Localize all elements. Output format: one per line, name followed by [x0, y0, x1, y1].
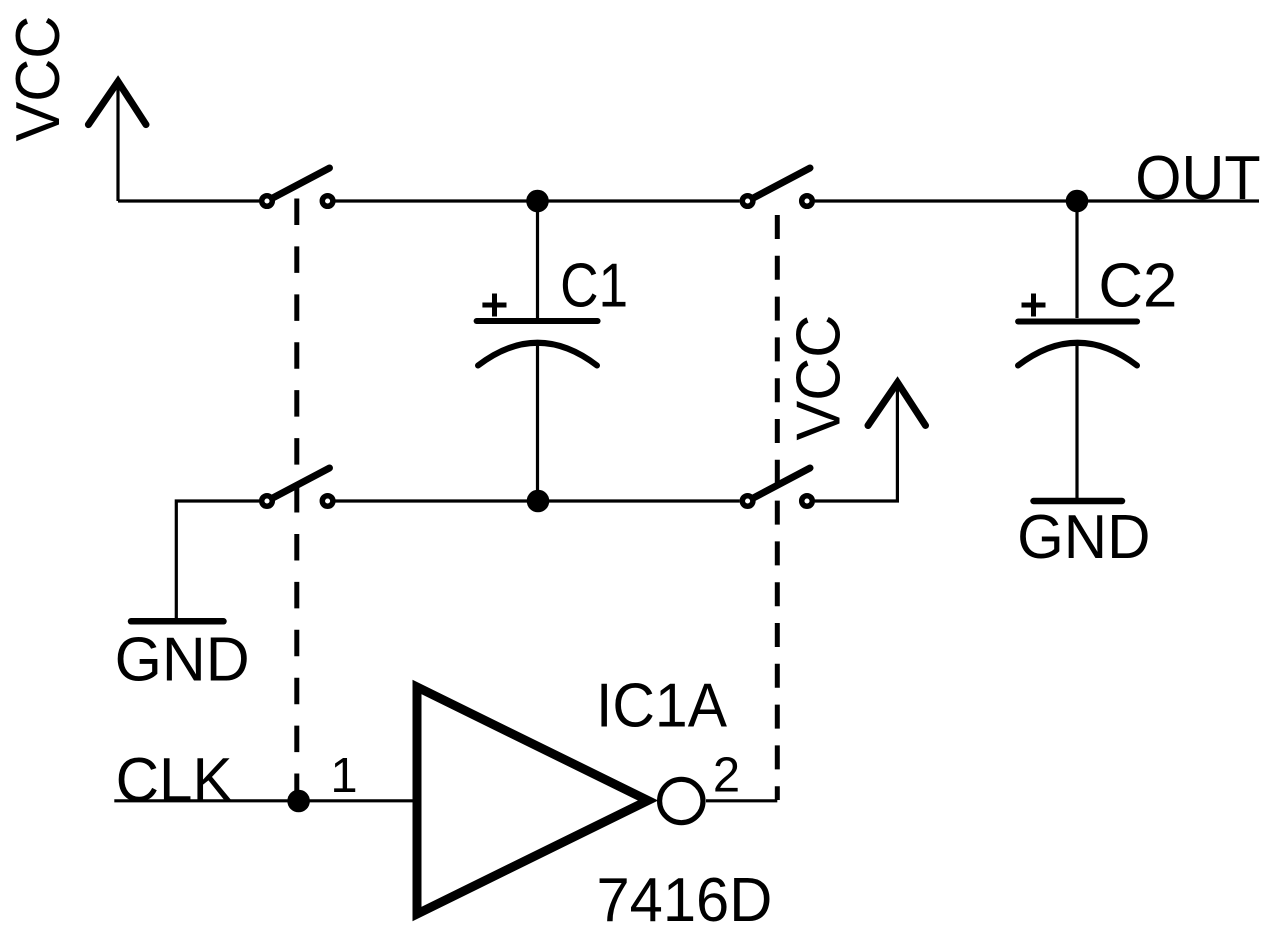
- svg-text:VCC: VCC: [785, 315, 854, 441]
- svg-text:VCC: VCC: [4, 16, 73, 142]
- control dashed line 1: [294, 199, 299, 801]
- wire CLK input: [114, 799, 298, 802]
- inverter IC1A (7416) triangle: [417, 687, 648, 914]
- wire C1 top lead: [536, 201, 539, 318]
- ground symbol GND (left): [131, 618, 224, 625]
- wire top rail segment 1: [118, 199, 259, 202]
- C1 curved plate: [478, 343, 597, 366]
- svg-text:C2: C2: [1098, 252, 1177, 321]
- supply symbol VCC arrow (top-left): [88, 78, 146, 201]
- junction node (CLK / control 1): [287, 790, 310, 813]
- capacitor C1: [477, 201, 628, 501]
- wire lower rail segment 2: [336, 499, 740, 502]
- capacitor C2: [1018, 201, 1177, 498]
- wire C2 bottom lead: [1075, 344, 1078, 498]
- wire top rail segment 2: [336, 199, 740, 202]
- wire top rail segment 3: [815, 199, 1259, 202]
- wire lower rail left + GND drop: [176, 501, 259, 618]
- C2 plus sign: [1022, 294, 1046, 317]
- C1 top plate: [477, 318, 598, 324]
- svg-text:OUT: OUT: [1135, 144, 1260, 213]
- inverter output bubble: [660, 779, 703, 822]
- junction node (bottom of C1): [527, 490, 550, 513]
- switch SW4 (bottom-right): [742, 468, 812, 506]
- ground symbol GND (under C2): [1034, 498, 1123, 505]
- switch SW2 (top-right): [742, 168, 812, 206]
- svg-text:7416D: 7416D: [597, 866, 773, 935]
- switch SW3 (bottom-left): [262, 468, 333, 506]
- supply symbol VCC arrow (middle): [868, 383, 926, 426]
- svg-text:GND: GND: [115, 626, 250, 695]
- svg-text:IC1A: IC1A: [596, 672, 728, 741]
- wire C2 top lead: [1075, 201, 1078, 318]
- wire pin 2: [706, 799, 777, 802]
- C2 top plate: [1018, 319, 1137, 325]
- svg-text:2: 2: [713, 749, 740, 803]
- control dashed line 2: [775, 215, 780, 800]
- svg-text:GND: GND: [1017, 503, 1150, 572]
- junction node (top of C1): [526, 190, 549, 213]
- C2 curved plate: [1018, 343, 1137, 366]
- wire C1 bottom lead: [536, 344, 539, 501]
- switch SW1 (top-left): [262, 168, 333, 206]
- C1 plus sign: [482, 294, 506, 317]
- wire pin 1: [299, 799, 414, 802]
- svg-text:1: 1: [330, 749, 357, 803]
- wire lower rail segment 3 + VCC riser: [815, 379, 897, 501]
- svg-text:CLK: CLK: [116, 746, 233, 815]
- svg-text:C1: C1: [560, 252, 628, 321]
- junction node (top of C2 / OUT): [1066, 190, 1089, 213]
